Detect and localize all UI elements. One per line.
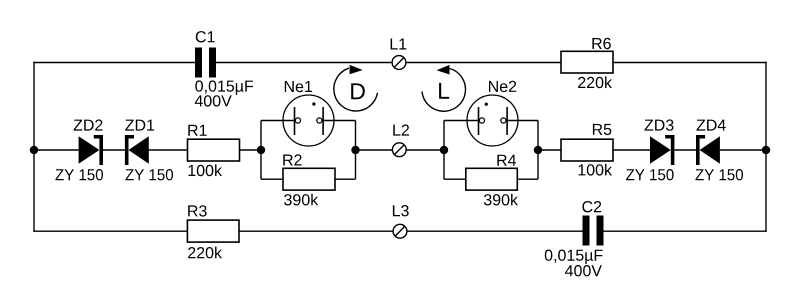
wire bottom bus R3 to L3 [239, 230, 393, 232]
wire between ZD2 and ZD1 [103, 149, 125, 151]
wire Ne1 right electrode to node B [322, 120, 356, 122]
wire bottom bus L3 to C2 [407, 230, 583, 232]
junction right bus / middle row [762, 146, 770, 154]
label ZD3 [645, 119, 674, 130]
junction left bus / middle row [30, 146, 38, 154]
value ZD4 ZY 150 [695, 169, 743, 180]
lamp L1 [392, 56, 406, 70]
wire node C down to R4 [444, 178, 466, 180]
value C1 0,015µF [195, 80, 253, 95]
label R2 [283, 154, 301, 165]
wire right bus [765, 62, 767, 232]
wire node A to Ne1 left electrode [261, 120, 296, 122]
wire bottom bus C2 to right corner [604, 230, 767, 232]
wire middle bus: left bus to ZD2 [34, 149, 79, 151]
resistor R3 [187, 220, 239, 242]
rotation arrow D (glow lamp oscillator direction) [334, 65, 378, 111]
wire node B to L2 [356, 149, 393, 151]
wire top bus left segment [33, 62, 195, 64]
resistor R6 [561, 51, 613, 73]
label ZD1 [125, 120, 154, 131]
value R6 220k [578, 76, 612, 88]
resistor R4 [466, 168, 518, 190]
label L2 [393, 124, 409, 135]
capacitor C1 [195, 48, 216, 78]
rotation arrow L [422, 65, 466, 111]
neon lamp Ne2 [467, 95, 518, 146]
wire R2 to node B [335, 178, 356, 180]
label R1 [188, 125, 206, 136]
junction node A [257, 146, 265, 154]
capacitor C2 [583, 216, 604, 246]
label ZD2 [74, 119, 103, 130]
label R5 [593, 124, 611, 135]
label R3 [188, 205, 207, 216]
label C2 [582, 201, 601, 212]
lamp L2 [392, 143, 406, 157]
label L3 [393, 205, 409, 216]
value R3 220k [188, 247, 222, 259]
label R4 [497, 155, 516, 166]
label R6 [592, 38, 610, 49]
node A vertical (left of Ne1/R2) [260, 121, 262, 180]
lamp L3 [393, 224, 407, 238]
resistor R2 [283, 168, 335, 190]
wire node C to Ne2 left electrode [444, 120, 480, 122]
label L1 [391, 39, 407, 50]
wire L2 to node C [406, 149, 444, 151]
wire left bus [33, 62, 35, 232]
value R1 100k [189, 164, 223, 176]
zener diode ZD3 [650, 135, 674, 165]
resistor R1 [188, 139, 240, 161]
junction node C [440, 146, 448, 154]
junction node B [351, 146, 359, 154]
wire R5 to ZD3 [613, 149, 650, 151]
wire top bus C1 to L1 [216, 62, 392, 64]
wire node D to R5 [538, 149, 561, 151]
value ZD3 ZY 150 [626, 169, 674, 180]
wire between ZD3 and ZD4 [675, 149, 697, 151]
value C1 400V [195, 95, 232, 106]
value R2 390k [284, 194, 318, 206]
wire top bus L1 to R6 [406, 62, 561, 64]
zener diode ZD2 [79, 135, 103, 165]
node C vertical (left of Ne2/R4) [443, 121, 445, 180]
zener diode ZD4 [696, 135, 720, 165]
wire R4 to node E [517, 178, 538, 180]
label Ne2 [489, 81, 516, 92]
resistor R5 [561, 139, 613, 161]
value ZD1 ZY 150 [125, 169, 173, 180]
node B vertical (right of Ne1/R2) [355, 121, 357, 180]
neon lamp Ne1 [283, 95, 334, 146]
label C1 [196, 31, 215, 42]
label Ne1 [285, 81, 312, 92]
wire ZD1 to R1 [149, 149, 188, 151]
letter D [351, 83, 365, 99]
wire R1 to node A [240, 149, 262, 151]
wire Ne2 right electrode to node E [506, 120, 539, 122]
value C2 0,015µF [545, 250, 603, 265]
wire ZD4 to right bus [720, 149, 766, 151]
zener diode ZD1 [125, 135, 149, 165]
wire top bus R6 to right corner [613, 62, 767, 64]
wire node A down to R2 [261, 178, 283, 180]
value R4 390k [484, 194, 518, 206]
value R5 100k [579, 164, 613, 176]
letter L [439, 83, 449, 99]
label ZD4 [697, 120, 726, 131]
junction node E [534, 146, 542, 154]
value C2 400V [565, 265, 602, 276]
value ZD2 ZY 150 [55, 169, 103, 180]
wire bottom bus left segment [33, 230, 187, 232]
node E vertical (right of Ne2/R4) [537, 121, 539, 180]
